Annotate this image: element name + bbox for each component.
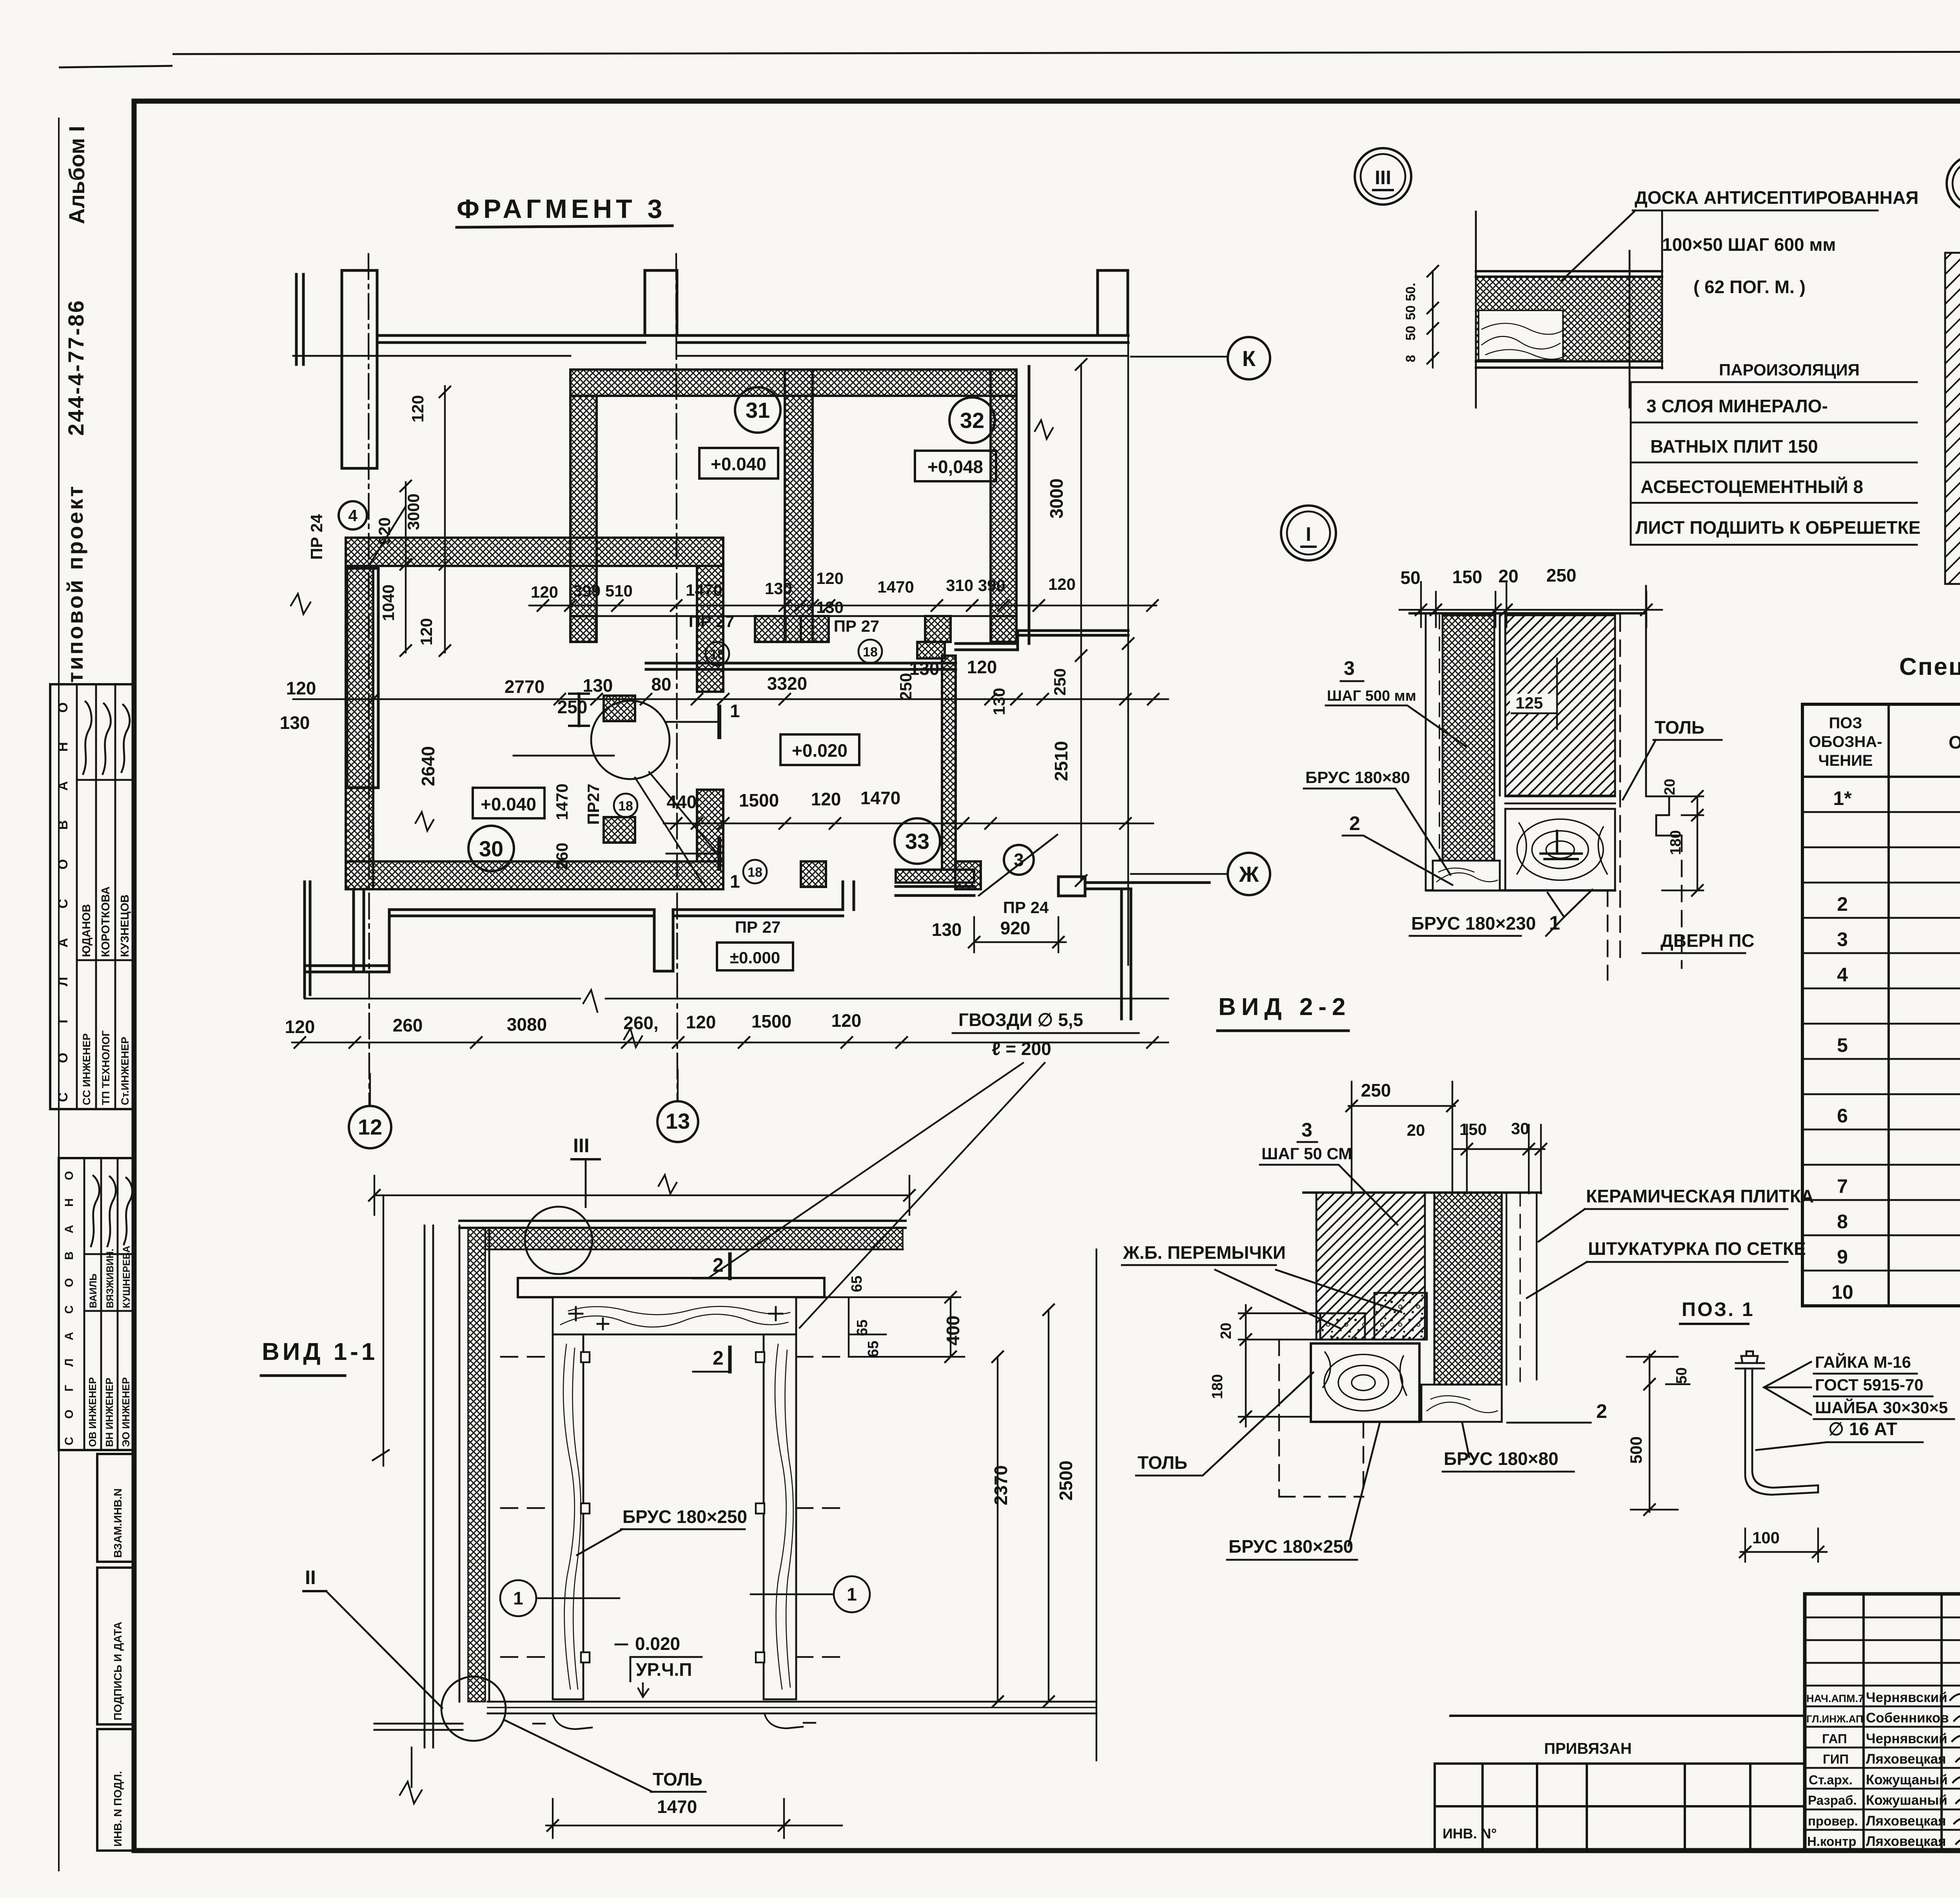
svg-text:250: 250 <box>897 673 915 700</box>
svg-text:250: 250 <box>1546 565 1577 586</box>
svg-text:ОБОЗНА-: ОБОЗНА- <box>1809 733 1882 750</box>
svg-text:ЮДАНОВ: ЮДАНОВ <box>80 904 93 957</box>
svg-text:1500: 1500 <box>739 790 779 810</box>
svg-text:1470: 1470 <box>553 783 571 820</box>
svg-text:2370: 2370 <box>991 1465 1011 1505</box>
svg-text:8: 8 <box>1837 1211 1848 1233</box>
svg-text:ЭО ИНЖЕНЕР: ЭО ИНЖЕНЕР <box>120 1377 132 1447</box>
svg-text:ВАТНЫХ ПЛИТ 150: ВАТНЫХ ПЛИТ 150 <box>1650 436 1818 457</box>
svg-text:ДОСКА АНТИСЕПТИРОВАННАЯ: ДОСКА АНТИСЕПТИРОВАННАЯ <box>1635 187 1918 208</box>
svg-text:3080: 3080 <box>507 1014 547 1035</box>
svg-text:150: 150 <box>1452 567 1483 587</box>
svg-text:ВН ИНЖЕНЕР: ВН ИНЖЕНЕР <box>103 1378 115 1447</box>
svg-text:УР.Ч.П: УР.Ч.П <box>636 1659 692 1680</box>
svg-text:1470: 1470 <box>657 1796 697 1817</box>
svg-text:130: 130 <box>816 598 844 616</box>
svg-text:ИНВ. N ПОДЛ.: ИНВ. N ПОДЛ. <box>112 1771 124 1847</box>
svg-text:1470: 1470 <box>877 578 914 596</box>
svg-text:18: 18 <box>710 647 725 662</box>
svg-text:33: 33 <box>905 829 929 854</box>
svg-text:ПР27: ПР27 <box>584 784 603 825</box>
svg-text:ГАП: ГАП <box>1822 1731 1847 1746</box>
svg-text:БРУС 180×80: БРУС 180×80 <box>1305 768 1410 787</box>
svg-text:С О Г Л А С О В А Н О: С О Г Л А С О В А Н О <box>63 1171 76 1445</box>
svg-text:Ж.Б. ПЕРЕМЫЧКИ: Ж.Б. ПЕРЕМЫЧКИ <box>1123 1242 1286 1263</box>
svg-text:ДВЕРН ПС: ДВЕРН ПС <box>1661 930 1755 951</box>
svg-text:ИНВ. N°: ИНВ. N° <box>1443 1825 1497 1842</box>
svg-text:ВИД 1-1: ВИД 1-1 <box>262 1338 378 1365</box>
svg-text:1*: 1* <box>1833 787 1852 809</box>
svg-text:Ж: Ж <box>1239 862 1259 886</box>
svg-text:31: 31 <box>746 398 770 422</box>
svg-text:2: 2 <box>1596 1400 1607 1422</box>
svg-text:2: 2 <box>1837 893 1848 915</box>
svg-text:Ст.арх.: Ст.арх. <box>1809 1773 1853 1787</box>
svg-text:К: К <box>1242 346 1256 371</box>
svg-text:125: 125 <box>1515 694 1543 712</box>
svg-text:120: 120 <box>811 789 841 809</box>
svg-text:ЧЕНИЕ: ЧЕНИЕ <box>1818 752 1873 769</box>
svg-text:III: III <box>573 1135 590 1157</box>
svg-text:400: 400 <box>943 1316 963 1346</box>
svg-text:ГИП: ГИП <box>1823 1752 1849 1766</box>
svg-text:ТОЛЬ: ТОЛЬ <box>653 1769 702 1789</box>
svg-text:ШАЙБА 30×30×5: ШАЙБА 30×30×5 <box>1815 1398 1948 1417</box>
svg-text:50: 50 <box>1403 326 1418 341</box>
svg-text:120: 120 <box>831 1010 862 1031</box>
svg-text:АСБЕСТОЦЕМЕНТНЫЙ 8: АСБЕСТОЦЕМЕНТНЫЙ 8 <box>1641 477 1863 497</box>
svg-text:180: 180 <box>1668 830 1684 855</box>
svg-text:ПР 27: ПР 27 <box>735 918 781 936</box>
svg-text:Спецификация элементов холод: Спецификация элементов холодильных камер <box>1899 653 1960 680</box>
svg-text:100×50 ШАГ 600 мм: 100×50 ШАГ 600 мм <box>1662 234 1836 255</box>
svg-text:10: 10 <box>1831 1281 1853 1303</box>
svg-text:БРУС 180×250: БРУС 180×250 <box>1229 1536 1353 1557</box>
svg-text:ОВ ИНЖЕНЕР: ОВ ИНЖЕНЕР <box>87 1377 98 1447</box>
svg-text:ПР 27: ПР 27 <box>689 612 735 631</box>
svg-text:3000: 3000 <box>1046 479 1067 518</box>
svg-text:Ляховецкая: Ляховецкая <box>1866 1751 1946 1767</box>
svg-text:250: 250 <box>1361 1080 1391 1100</box>
svg-text:20: 20 <box>1498 566 1518 586</box>
svg-text:Разраб.: Разраб. <box>1808 1793 1857 1807</box>
svg-text:ОБОЗНАЧЕНИЕ: ОБОЗНАЧЕНИЕ <box>1949 732 1960 752</box>
svg-text:3: 3 <box>1014 850 1024 870</box>
svg-text:399 510: 399 510 <box>573 582 633 600</box>
svg-text:±0.000: ±0.000 <box>730 948 780 967</box>
svg-text:440: 440 <box>667 792 697 812</box>
svg-text:260: 260 <box>553 843 571 870</box>
svg-text:3 СЛОЯ МИНЕРАЛО-: 3 СЛОЯ МИНЕРАЛО- <box>1646 396 1828 416</box>
svg-text:ПОЗ. 1: ПОЗ. 1 <box>1682 1298 1755 1320</box>
svg-text:+0.040: +0.040 <box>481 794 536 814</box>
svg-text:20: 20 <box>1407 1121 1425 1139</box>
svg-text:III: III <box>1375 167 1391 189</box>
svg-text:20: 20 <box>1662 779 1678 795</box>
svg-text:+0,048: +0,048 <box>927 457 983 477</box>
svg-text:НАЧ.АПМ.7: НАЧ.АПМ.7 <box>1806 1693 1864 1704</box>
svg-text:1470: 1470 <box>860 788 900 808</box>
svg-text:130: 130 <box>990 688 1008 715</box>
svg-text:3320: 3320 <box>767 673 807 694</box>
svg-text:250: 250 <box>1051 668 1069 696</box>
svg-text:ВИД 2-2: ВИД 2-2 <box>1218 993 1351 1021</box>
svg-text:130: 130 <box>932 919 962 940</box>
svg-text:260: 260 <box>393 1015 423 1035</box>
svg-text:Чернявский: Чернявский <box>1866 1731 1947 1746</box>
svg-text:18: 18 <box>748 865 762 880</box>
svg-text:2: 2 <box>1349 812 1360 834</box>
svg-text:2640: 2640 <box>418 746 438 786</box>
svg-text:КОРОТКОВА: КОРОТКОВА <box>100 886 112 957</box>
svg-text:ВАИЛЬ: ВАИЛЬ <box>88 1274 99 1308</box>
svg-text:120: 120 <box>285 1017 315 1037</box>
svg-text:Альбом I: Альбом I <box>64 126 89 224</box>
svg-text:150: 150 <box>1459 1120 1487 1138</box>
svg-text:ШАГ 50 СМ: ШАГ 50 СМ <box>1261 1144 1352 1163</box>
svg-text:2: 2 <box>713 1347 724 1369</box>
svg-text:2770: 2770 <box>505 676 544 697</box>
svg-text:Н.контр: Н.контр <box>1807 1834 1857 1849</box>
svg-text:1: 1 <box>847 1584 857 1604</box>
svg-text:ТОЛЬ: ТОЛЬ <box>1655 717 1704 738</box>
svg-text:СС ИНЖЕНЕР: СС ИНЖЕНЕР <box>81 1033 93 1105</box>
svg-text:ЛИСТ ПОДШИТЬ К ОБРЕШЕТКЕ: ЛИСТ ПОДШИТЬ К ОБРЕШЕТКЕ <box>1635 517 1920 538</box>
svg-text:С О Г Л А С О В А Н О: С О Г Л А С О В А Н О <box>56 702 71 1102</box>
svg-text:6: 6 <box>1837 1105 1848 1127</box>
svg-text:ПР 27: ПР 27 <box>834 617 880 635</box>
svg-text:1: 1 <box>730 871 740 892</box>
svg-text:I: I <box>1306 523 1311 545</box>
svg-text:50.: 50. <box>1403 283 1418 301</box>
svg-text:ГЛ.ИНЖ.АП: ГЛ.ИНЖ.АП <box>1806 1713 1863 1725</box>
svg-text:ПОЗ: ПОЗ <box>1829 714 1862 732</box>
svg-text:1: 1 <box>513 1588 523 1608</box>
svg-text:Ст.ИНЖЕНЕР: Ст.ИНЖЕНЕР <box>119 1037 131 1105</box>
svg-text:КЕРАМИЧЕСКАЯ ПЛИТКА: КЕРАМИЧЕСКАЯ ПЛИТКА <box>1586 1186 1814 1206</box>
svg-text:120: 120 <box>286 678 316 698</box>
svg-text:13: 13 <box>666 1109 690 1133</box>
svg-text:12: 12 <box>358 1115 382 1139</box>
svg-text:ПР 24: ПР 24 <box>1003 898 1049 917</box>
svg-text:500: 500 <box>1627 1436 1645 1464</box>
svg-text:БРУС 180×230: БРУС 180×230 <box>1411 913 1536 934</box>
svg-text:7: 7 <box>1837 1175 1848 1197</box>
svg-text:ГОСТ 5915-70: ГОСТ 5915-70 <box>1815 1376 1924 1394</box>
svg-text:120: 120 <box>967 657 997 677</box>
svg-text:5: 5 <box>1837 1034 1848 1056</box>
svg-text:65: 65 <box>849 1276 865 1292</box>
svg-text:30: 30 <box>479 836 503 861</box>
svg-text:КУШНЕРЕВА: КУШНЕРЕВА <box>121 1246 132 1309</box>
svg-text:ВЗАМ.ИНВ.N: ВЗАМ.ИНВ.N <box>112 1488 124 1558</box>
svg-text:2500: 2500 <box>1056 1461 1076 1501</box>
svg-text:3000: 3000 <box>404 493 423 530</box>
svg-text:50: 50 <box>1673 1367 1690 1384</box>
svg-text:50: 50 <box>1403 305 1418 320</box>
svg-text:1470: 1470 <box>686 581 722 599</box>
svg-text:Ляховецкая: Ляховецкая <box>1866 1813 1946 1829</box>
svg-text:Кожущаный: Кожущаный <box>1866 1772 1948 1787</box>
svg-text:2510: 2510 <box>1051 741 1071 781</box>
svg-text:2: 2 <box>713 1254 724 1276</box>
svg-text:120: 120 <box>408 395 427 422</box>
svg-text:9: 9 <box>1837 1246 1848 1268</box>
svg-text:180: 180 <box>1209 1374 1226 1399</box>
svg-text:120: 120 <box>686 1012 716 1032</box>
svg-text:120: 120 <box>417 618 436 645</box>
svg-text:32: 32 <box>960 408 984 433</box>
svg-text:1500: 1500 <box>751 1011 791 1031</box>
svg-text:130: 130 <box>280 712 310 733</box>
svg-text:80: 80 <box>651 674 671 694</box>
svg-text:3: 3 <box>1301 1119 1312 1141</box>
svg-text:ШАГ 500 мм: ШАГ 500 мм <box>1327 688 1416 704</box>
svg-text:120: 120 <box>531 583 558 601</box>
svg-text:4: 4 <box>1837 964 1848 986</box>
svg-text:КУЗНЕЦОВ: КУЗНЕЦОВ <box>119 894 131 957</box>
svg-text:50: 50 <box>1400 567 1420 588</box>
svg-text:II: II <box>305 1566 316 1588</box>
svg-text:ПАРОИЗОЛЯЦИЯ: ПАРОИЗОЛЯЦИЯ <box>1719 361 1860 379</box>
svg-text:244-4-77-86: 244-4-77-86 <box>64 299 88 436</box>
svg-text:310 390: 310 390 <box>946 576 1005 595</box>
svg-text:4: 4 <box>348 506 358 525</box>
svg-text:130: 130 <box>765 579 792 598</box>
svg-text:65: 65 <box>865 1341 882 1357</box>
svg-text:БРУС 180×250: БРУС 180×250 <box>622 1506 747 1527</box>
svg-text:1040: 1040 <box>379 584 397 621</box>
svg-text:65: 65 <box>854 1320 871 1336</box>
svg-text:ТОЛЬ: ТОЛЬ <box>1138 1452 1187 1473</box>
svg-text:20: 20 <box>1218 1323 1234 1339</box>
svg-text:18: 18 <box>863 645 878 660</box>
svg-text:ГАЙКА М-16: ГАЙКА М-16 <box>1815 1352 1911 1371</box>
svg-text:1: 1 <box>730 701 740 721</box>
svg-text:ФРАГМЕНТ 3: ФРАГМЕНТ 3 <box>457 194 666 224</box>
svg-text:100: 100 <box>1752 1528 1780 1547</box>
svg-text:Кожушаный: Кожушаный <box>1866 1793 1947 1808</box>
svg-text:ШТУКАТУРКА ПО СЕТКЕ: ШТУКАТУРКА ПО СЕТКЕ <box>1588 1238 1806 1259</box>
svg-text:Ляховецкая: Ляховецкая <box>1866 1834 1946 1849</box>
svg-text:ПРИВЯЗАН: ПРИВЯЗАН <box>1544 1740 1632 1757</box>
svg-text:120: 120 <box>816 569 844 587</box>
svg-text:+0.020: +0.020 <box>792 740 848 761</box>
svg-text:920: 920 <box>375 517 394 545</box>
svg-text:ПР 24: ПР 24 <box>307 514 326 560</box>
svg-text:120: 120 <box>1048 575 1076 593</box>
svg-text:8: 8 <box>1403 355 1418 363</box>
svg-text:БРУС 180×80: БРУС 180×80 <box>1444 1448 1559 1469</box>
svg-text:( 62 ПОГ. М. ): ( 62 ПОГ. М. ) <box>1693 277 1806 297</box>
svg-text:провер.: провер. <box>1808 1814 1858 1828</box>
svg-text:∅ 16 АТ: ∅ 16 АТ <box>1828 1419 1897 1439</box>
svg-text:250: 250 <box>557 697 588 717</box>
svg-text:3: 3 <box>1344 657 1355 679</box>
svg-text:30: 30 <box>1511 1119 1530 1138</box>
svg-text:Чернявский: Чернявский <box>1866 1690 1947 1705</box>
svg-text:ВЯЗЖИВИН.: ВЯЗЖИВИН. <box>105 1249 116 1308</box>
svg-text:Собенников: Собенников <box>1866 1710 1949 1726</box>
svg-text:18: 18 <box>618 799 633 814</box>
svg-text:ПОДПИСЬ И ДАТА: ПОДПИСЬ И ДАТА <box>112 1622 124 1720</box>
svg-text:типовой проект: типовой проект <box>63 484 87 683</box>
svg-text:3: 3 <box>1837 928 1848 950</box>
svg-text:ГВОЗДИ ∅ 5,5: ГВОЗДИ ∅ 5,5 <box>958 1010 1083 1030</box>
svg-text:ТП ТЕХНОЛОГ: ТП ТЕХНОЛОГ <box>100 1030 112 1105</box>
svg-text:ℓ = 200: ℓ = 200 <box>992 1039 1051 1059</box>
svg-text:+0.040: +0.040 <box>711 454 766 474</box>
svg-text:920: 920 <box>1000 918 1031 938</box>
svg-text:0.020: 0.020 <box>635 1633 680 1654</box>
